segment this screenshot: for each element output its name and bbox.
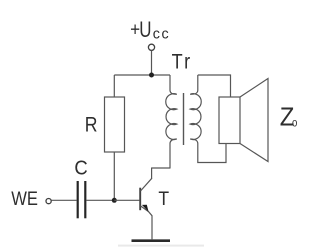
svg-text:C: C (74, 156, 87, 179)
wire resistor bottom to base node (113, 152, 115, 200)
wire secondary bottom to speaker (198, 144, 226, 163)
wire collector to primary (152, 167, 170, 169)
node supply junction (149, 73, 154, 78)
wire to resistor top (113, 75, 115, 97)
svg-text:WE: WE (11, 188, 38, 210)
transformer Tr secondary winding (190, 75, 201, 144)
transformer Tr primary winding (166, 75, 177, 144)
supply terminal +Ucc (148, 44, 154, 50)
svg-text:Tr: Tr (172, 50, 193, 74)
capacitor C (77, 181, 79, 218)
wire base node to transistor base (114, 199, 139, 201)
cropped caption remnant (118, 245, 204, 247)
wire secondary top to speaker (198, 75, 231, 97)
svg-text:R: R (85, 113, 98, 137)
wire collector up (151, 168, 153, 179)
node base junction (112, 198, 117, 203)
svg-text:o: o (292, 116, 297, 129)
speaker Zo driver (219, 97, 240, 144)
ground (132, 239, 171, 242)
transistor T (140, 178, 152, 216)
resistor R (105, 97, 125, 152)
svg-text:cc: cc (153, 27, 171, 43)
svg-text:U: U (139, 18, 151, 43)
wire supply drop (151, 51, 153, 75)
input terminal WE (46, 199, 51, 204)
transformer core (183, 93, 185, 145)
wire emitter down (151, 216, 153, 240)
svg-text:T: T (158, 187, 169, 209)
wire capacitor to base node (87, 199, 115, 201)
wire top rail (114, 74, 170, 76)
wire input to capacitor (51, 199, 76, 201)
speaker Zo horn (240, 79, 268, 162)
